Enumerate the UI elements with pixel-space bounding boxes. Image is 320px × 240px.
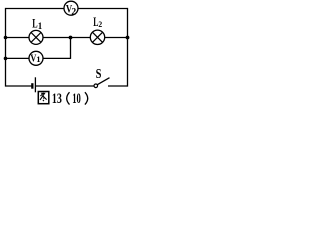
wire V1 branch vertical riser	[70, 38, 72, 59]
node junction mid (between L1 and L2)	[69, 36, 73, 40]
switch S blade	[97, 78, 109, 85]
wire V1 branch horizontal	[6, 57, 71, 59]
caption: hanzi TU (figure) drawn as paths	[38, 92, 49, 104]
label L2	[93, 15, 102, 29]
svg-text:1: 1	[38, 21, 43, 31]
node junction left-middle	[4, 36, 8, 40]
svg-text:2: 2	[98, 19, 102, 29]
voltmeter V1	[29, 51, 43, 65]
svg-text:2: 2	[71, 7, 76, 17]
label L1	[32, 16, 42, 31]
wire switch to bottom right	[108, 85, 128, 87]
caption: fullwidth open paren	[67, 92, 70, 104]
lamp L1	[29, 30, 43, 44]
wire middle horizontal (lamp branch)	[6, 37, 128, 39]
switch S pivot circle	[94, 84, 98, 88]
voltmeter V2	[64, 1, 78, 17]
caption: fullwidth close paren	[85, 92, 88, 104]
svg-text:13: 13	[52, 91, 62, 107]
wire right vertical	[127, 8, 129, 87]
svg-text:1: 1	[36, 54, 40, 64]
wire battery to switch	[36, 85, 94, 87]
lamp L2	[90, 30, 104, 44]
wire left vertical	[5, 8, 7, 87]
svg-text:S: S	[96, 66, 102, 81]
svg-text:10: 10	[72, 91, 81, 107]
node junction right-middle	[126, 36, 130, 40]
node junction left-V1	[4, 57, 8, 61]
wire top horizontal	[6, 8, 128, 10]
battery cell: long thin positive plate	[34, 77, 36, 92]
wire bottom left to battery	[6, 85, 32, 87]
battery cell: short thick negative plate	[31, 83, 33, 89]
